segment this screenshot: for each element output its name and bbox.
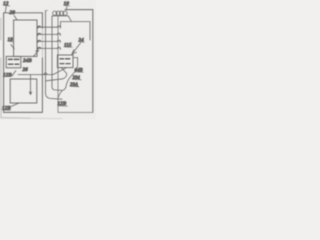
winding turn 1 (y=27.2) <box>37 26 58 28</box>
lead arrow from 28 to inner box corner <box>14 15 17 19</box>
arrow from 24 to small box <box>72 43 81 54</box>
leader slash to small box <box>12 71 16 76</box>
lead line from 10 <box>65 7 68 10</box>
scan artifact left border <box>0 18 2 118</box>
core rod line A (x=45.5) <box>46 11 63 100</box>
turn 4 left end arc <box>38 47 41 49</box>
contents of left small box <box>9 58 19 60</box>
core rod line B (x=52) <box>52 16 62 90</box>
scan noise overlay <box>0 0 1 1</box>
turn 1 right end arc <box>57 26 60 28</box>
outer box left unit <box>4 13 43 113</box>
winding turn 2 (y=34.4) <box>37 33 58 35</box>
turn 2 left end arc <box>38 33 41 35</box>
scan artifact bottom border <box>1 117 30 120</box>
antenna coil (top, horizontal) <box>52 15 53 17</box>
turn 4 right end arc <box>57 47 60 49</box>
turn 3 left end arc <box>38 40 41 42</box>
horizontal wire to left unit (y=74.6) <box>18 74 53 76</box>
coil right lead diagonal into right box <box>68 16 71 21</box>
mid box left unit <box>10 79 37 103</box>
turn 2 right end arc <box>57 33 60 35</box>
arrow from 18 <box>11 45 14 49</box>
wire junction to funnel <box>58 90 62 97</box>
winding turn 3 (y=41.4) <box>37 40 58 42</box>
twisted pair wire A from small box <box>46 68 67 81</box>
hop bump on wire <box>44 73 47 75</box>
lead line from label 12 <box>5 7 6 13</box>
small box left unit <box>6 56 21 67</box>
turn 1 left end arc <box>38 26 41 28</box>
twisted pair wire B from small box <box>53 68 66 75</box>
winding turn 4 (y=48.4) <box>37 47 58 49</box>
contents of right small box <box>60 58 70 60</box>
wire C from small box right side <box>62 58 77 91</box>
outer box right unit <box>65 10 93 113</box>
faint middle of left outer box right edge <box>41 28 43 58</box>
inner box left unit <box>14 20 37 56</box>
inner bar right unit <box>61 22 91 40</box>
arrow down into mid box <box>29 75 31 95</box>
turn 3 right end arc <box>57 40 60 42</box>
core rod top hook <box>46 9 48 11</box>
small box right unit <box>57 55 73 68</box>
